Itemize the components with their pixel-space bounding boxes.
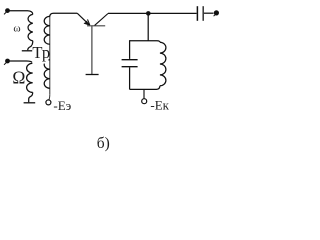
node junction on rail xyxy=(146,11,151,16)
svg-text:-Еэ: -Еэ xyxy=(53,98,71,113)
wire collector rail to coupling capacitor xyxy=(108,12,197,14)
ground bar of winding w2 xyxy=(24,102,36,104)
wire tank bottom rail xyxy=(130,86,160,90)
wire w2 bottom lead xyxy=(29,92,33,102)
wire capacitor to output xyxy=(204,12,214,14)
capacitor Ck bottom stub xyxy=(129,67,131,89)
node input terminal 2 xyxy=(4,59,10,65)
capacitor Ck plates xyxy=(122,60,138,67)
transformer secondary winding straight lead xyxy=(49,16,51,94)
transformer secondary winding upper bumps xyxy=(44,16,50,44)
transistor VT collector xyxy=(95,14,108,26)
wire terminal1 to winding w1 xyxy=(8,11,33,15)
transformer winding w1 (omega) xyxy=(28,14,33,40)
ground bar of base xyxy=(86,74,99,76)
node -Ee terminal circle xyxy=(46,100,51,105)
wire secondary top to emitter xyxy=(50,13,77,16)
capacitor Cc left plate xyxy=(196,6,198,21)
wire tank top rail xyxy=(130,41,160,42)
wire tank bottom lead to -Ek xyxy=(143,89,145,98)
transformer secondary winding lower bumps xyxy=(44,60,50,89)
node input terminal 1 xyxy=(4,8,10,14)
wire terminal2 to winding w2 xyxy=(8,61,33,63)
capacitor Cc right plate xyxy=(202,6,204,21)
capacitor Ck top stub xyxy=(129,40,131,59)
transistor VT base bar xyxy=(87,25,105,27)
node output terminal xyxy=(214,10,219,16)
svg-text:Тр: Тр xyxy=(32,43,50,62)
svg-text:-Ек: -Ек xyxy=(150,98,169,113)
svg-text:б): б) xyxy=(97,135,110,152)
ground bar of winding w1 xyxy=(22,50,33,52)
wire junction down to tank xyxy=(147,13,149,40)
wire secondary bottom lead to -Ee xyxy=(48,94,51,100)
transistor VT emitter with arrow (PNP) xyxy=(77,13,90,25)
inductor Lk coil xyxy=(160,42,166,86)
wire w1 bottom lead xyxy=(28,41,33,50)
svg-text:ω: ω xyxy=(13,22,20,34)
svg-text:Ω: Ω xyxy=(12,68,25,88)
wire base lead down xyxy=(91,26,93,74)
transformer winding w2 (Omega) xyxy=(27,63,33,92)
label Tr (transformer) xyxy=(32,43,50,63)
node -Ek terminal circle xyxy=(142,99,147,104)
